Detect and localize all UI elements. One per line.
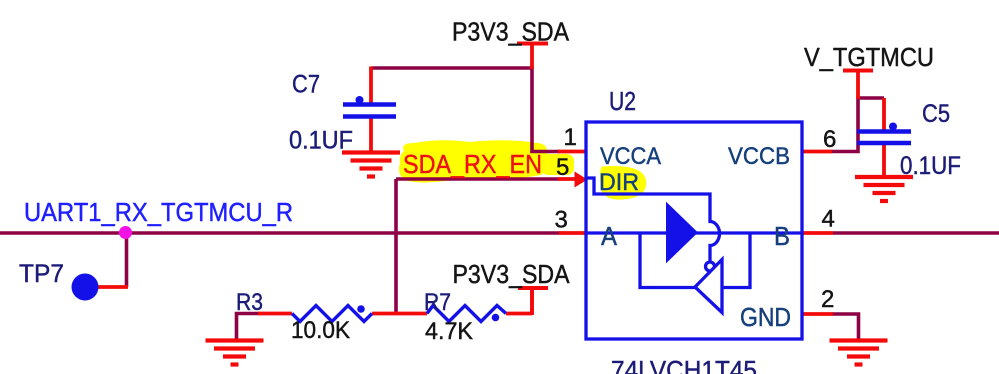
svg-text:5: 5 [556, 154, 569, 181]
ground U2 pin2 [830, 341, 888, 365]
wire C7 bottom lead [369, 118, 373, 153]
ground C5 [855, 177, 913, 201]
svg-text:R7: R7 [424, 289, 451, 316]
svg-text:P3V3_SDA: P3V3_SDA [453, 259, 571, 289]
highlight DIR [600, 166, 646, 200]
wire C7 top lead [369, 67, 373, 104]
wire C7 to P3V3 junction [371, 66, 532, 70]
highlight SDA_RX_EN [399, 140, 548, 182]
U2 buffer A to B [667, 204, 697, 261]
wire SDA_RX_EN horizontal [396, 177, 560, 181]
power tap V_TGTMCU [843, 71, 873, 100]
wire P3V3 to pin1 [532, 67, 560, 152]
svg-text:GND: GND [740, 302, 791, 332]
wire pin5 arrow lead [558, 177, 576, 181]
svg-text:6: 6 [823, 126, 836, 153]
svg-text:0.1UF: 0.1UF [289, 127, 353, 155]
wire R7 right lead [506, 312, 532, 316]
U2 A-B line [586, 231, 802, 234]
svg-text:U2: U2 [609, 86, 636, 116]
power tap P3V3_SDA bottom [518, 288, 548, 314]
capacitor C7 [343, 96, 396, 117]
ground R3 [206, 341, 264, 365]
wire R3-R7 middle [372, 312, 427, 316]
wire C5 bottom lead [882, 145, 886, 178]
svg-text:1: 1 [564, 124, 577, 151]
svg-text:4.7K: 4.7K [425, 318, 473, 345]
pin 1 stub [558, 150, 586, 154]
power tap P3V3_SDA top [517, 44, 548, 70]
svg-text:R3: R3 [236, 289, 263, 316]
wire pin6 to V_TGTMCU [831, 98, 884, 152]
svg-text:SDA_RX_EN: SDA_RX_EN [403, 149, 542, 179]
svg-text:2: 2 [821, 286, 834, 313]
svg-text:A: A [601, 221, 618, 251]
op-amp U2 box [586, 122, 802, 339]
svg-text:3: 3 [555, 207, 568, 234]
pin 2 stub [802, 312, 833, 316]
wire R3 to ground [237, 314, 261, 341]
wire A net left [0, 231, 560, 235]
pin 3 stub [559, 231, 586, 235]
svg-text:C7: C7 [292, 71, 320, 99]
wire B net right [833, 231, 999, 235]
capacitor C5 [857, 123, 911, 144]
U2 feedback output wire [640, 233, 695, 288]
TP7 stub [97, 285, 128, 289]
svg-text:VCCA: VCCA [600, 143, 661, 170]
ground C7 [342, 153, 400, 177]
U2 inverter bubble [706, 262, 715, 271]
wire pin2 to ground [832, 314, 859, 340]
svg-text:P3V3_SDA: P3V3_SDA [452, 17, 570, 47]
wire R7 to P3V3 tap [530, 288, 534, 315]
pin 6 stub [802, 150, 832, 154]
svg-text:TP7: TP7 [19, 260, 64, 288]
svg-text:B: B [774, 221, 790, 251]
svg-text:74LVCH1T45: 74LVCH1T45 [611, 355, 757, 374]
svg-text:DIR: DIR [599, 169, 639, 196]
svg-text:VCCB: VCCB [728, 143, 790, 170]
svg-text:4: 4 [822, 206, 835, 233]
wire SDA_RX_EN vertical [394, 179, 398, 314]
svg-text:C5: C5 [922, 100, 950, 128]
wire C5 top lead [882, 98, 886, 130]
svg-text:UART1_RX_TGTMCU_R: UART1_RX_TGTMCU_R [24, 197, 293, 227]
U2 feedback input wire [722, 233, 750, 288]
wire TP7 vertical [125, 233, 129, 287]
resistor R3 [292, 305, 372, 321]
U2 DIR line with hop [586, 178, 720, 263]
svg-text:V_TGTMCU: V_TGTMCU [804, 42, 934, 72]
svg-text:10.0K: 10.0K [291, 317, 350, 344]
arrow DIR pin5 [575, 172, 588, 188]
pin 4 stub [802, 231, 833, 235]
U2 buffer B to A [695, 260, 722, 313]
wire R3 left lead [258, 312, 292, 316]
testpoint TP7 [72, 274, 99, 301]
svg-text:0.1UF: 0.1UF [900, 152, 961, 180]
resistor R7 [427, 306, 506, 322]
junction node UART1 [119, 226, 132, 239]
highlight pin5 [541, 154, 574, 175]
